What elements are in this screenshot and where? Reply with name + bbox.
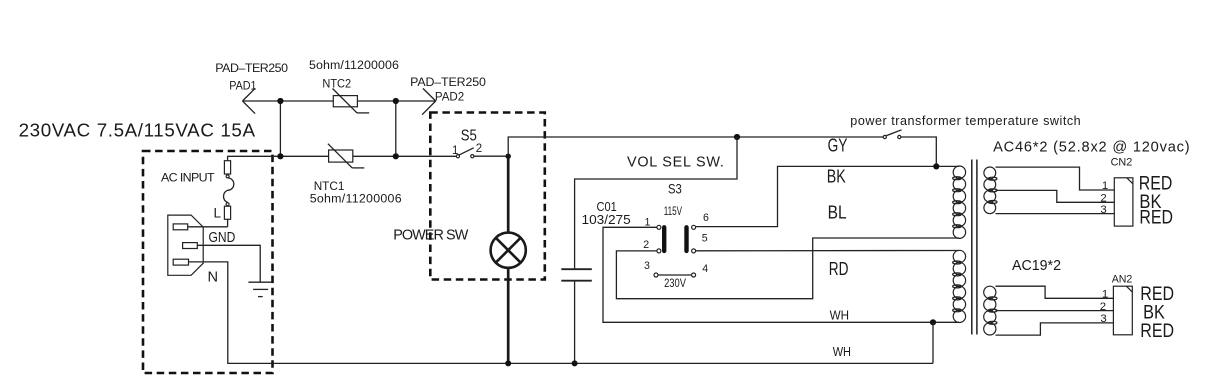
svg-text:NTC2: NTC2 — [322, 77, 351, 91]
wire sec2 bottom to AN2 pin3 — [996, 323, 1114, 335]
svg-text:AC INPUT: AC INPUT — [161, 170, 215, 184]
wire capacitor to bottom rail — [574, 282, 576, 364]
svg-text:S5: S5 — [461, 128, 477, 145]
wire sec2 top to AN2 pin1 — [996, 286, 1114, 298]
wire bus down to capacitor — [575, 137, 737, 268]
node bottom rail at capacitor — [572, 360, 578, 366]
svg-text:230V: 230V — [664, 277, 686, 290]
transformer T1 primary upper winding — [953, 166, 966, 238]
svg-text:5ohm/11200006: 5ohm/11200006 — [309, 58, 399, 72]
svg-text:3: 3 — [1100, 204, 1106, 216]
lower AC wire — [227, 155, 456, 157]
svg-text:PAD1: PAD1 — [229, 79, 256, 93]
wire sec1 top to CN2 pin1 — [996, 167, 1115, 190]
strap pins 3-4 — [658, 274, 692, 276]
svg-text:AN2: AN2 — [1112, 273, 1133, 285]
svg-text:RD: RD — [829, 258, 849, 279]
svg-text:2: 2 — [1100, 193, 1106, 205]
AC inlet connector — [168, 215, 203, 275]
svg-text:BL: BL — [828, 202, 847, 223]
svg-text:BK: BK — [827, 165, 846, 186]
lamp — [491, 233, 526, 268]
svg-text:GY: GY — [828, 135, 848, 156]
svg-text:3: 3 — [644, 260, 650, 272]
svg-text:5ohm/11200006: 5ohm/11200006 — [310, 191, 402, 205]
wire S5 node up to line bus — [508, 137, 883, 156]
svg-text:115V: 115V — [664, 205, 683, 218]
svg-text:AC19*2: AC19*2 — [1012, 258, 1061, 274]
svg-text:RED: RED — [1139, 206, 1173, 228]
svg-text:CN2: CN2 — [1111, 156, 1133, 168]
inlet pin N — [173, 259, 188, 265]
svg-text:2: 2 — [643, 239, 649, 251]
node BK winding top — [933, 163, 939, 169]
svg-text:GND: GND — [209, 230, 236, 246]
ground symbol — [248, 282, 272, 296]
svg-text:S3: S3 — [668, 182, 682, 197]
wire sec1 bottom to CN2 pin3 — [996, 213, 1115, 215]
svg-text:230VAC 7.5A/115VAC 15A: 230VAC 7.5A/115VAC 15A — [19, 120, 256, 141]
selector S3 contacts — [654, 225, 696, 277]
connector CN2 — [1114, 178, 1133, 226]
wire temp switch to winding top — [901, 137, 936, 166]
inlet pin GND — [183, 243, 198, 249]
wire S3 pin5 to RD — [695, 250, 959, 252]
node after S5 — [506, 154, 511, 159]
AC input dashed enclosure — [143, 151, 273, 373]
svg-text:L: L — [214, 206, 222, 221]
svg-text:4: 4 — [702, 263, 708, 275]
svg-text:3: 3 — [1100, 313, 1106, 325]
riser bottom rail to WH — [932, 322, 934, 363]
svg-text:1: 1 — [452, 145, 458, 157]
junction dots pad rows — [277, 98, 283, 104]
svg-text:RED: RED — [1140, 320, 1174, 342]
node bottom rail at lamp — [505, 360, 511, 366]
wire sec1 tap to CN2 pin2 — [996, 190, 1115, 202]
svg-text:5: 5 — [702, 233, 708, 245]
wire S3 pin2 to BL — [616, 238, 959, 299]
transformer secondary lower winding — [984, 286, 997, 335]
terminal PAD1 — [243, 88, 256, 113]
svg-text:POWER SW: POWER SW — [393, 227, 469, 243]
svg-text:power transformer temperature: power transformer temperature switch — [850, 114, 1080, 128]
transformer T1 primary lower winding — [953, 250, 966, 322]
svg-text:103/275: 103/275 — [582, 212, 631, 227]
selector S3 bar left — [662, 227, 666, 251]
thermistor NTC2 — [333, 89, 370, 113]
svg-text:PAD–TER250: PAD–TER250 — [215, 61, 288, 75]
svg-text:N: N — [208, 270, 219, 286]
wire fuse to pin L — [188, 226, 228, 228]
connector AN2 — [1113, 286, 1132, 335]
top pad wire — [243, 100, 436, 102]
power switch dashed enclosure — [430, 113, 545, 280]
wire N pin to bottom rail — [189, 262, 934, 364]
link risers between pad wire and lower wire — [279, 101, 281, 156]
svg-text:2: 2 — [1100, 301, 1106, 313]
selector S3 bar right — [684, 227, 688, 251]
switch S5 — [456, 148, 508, 158]
svg-text:6: 6 — [703, 212, 709, 224]
terminal PAD2 — [422, 88, 436, 114]
wire sec2 tap to AN2 pin2 — [996, 310, 1114, 312]
svg-text:WH: WH — [833, 344, 851, 359]
svg-text:PAD–TER250: PAD–TER250 — [410, 75, 486, 89]
svg-text:VOL SEL SW.: VOL SEL SW. — [627, 155, 724, 171]
lamp to bottom rail thick — [507, 268, 510, 364]
wire GND pin to ground — [197, 245, 260, 282]
svg-text:WH: WH — [830, 308, 849, 323]
inlet pin L — [173, 224, 188, 230]
svg-text:2: 2 — [476, 143, 482, 155]
lamp line thick — [507, 156, 510, 233]
temperature switch — [883, 130, 901, 139]
fuse F1 — [224, 156, 234, 227]
capacitor C01 — [561, 269, 592, 281]
thermistor NTC1 — [328, 144, 364, 168]
svg-text:AC46*2 (52.8x2 @ 120vac): AC46*2 (52.8x2 @ 120vac) — [993, 139, 1190, 155]
svg-text:PAD2: PAD2 — [435, 90, 464, 104]
node WH winding bottom — [930, 319, 936, 325]
wire S3 pin1 to WH — [603, 227, 959, 322]
transformer secondary upper winding — [984, 167, 997, 214]
svg-text:1: 1 — [1102, 180, 1108, 192]
transformer core — [972, 160, 977, 335]
svg-text:1: 1 — [1102, 289, 1108, 301]
wire S3 pin6 to BK — [695, 166, 959, 226]
node line bus — [734, 134, 740, 140]
